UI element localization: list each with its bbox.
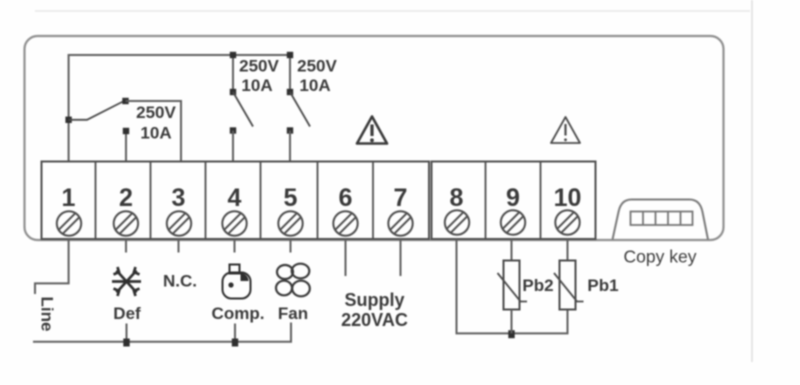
warning triangle W1 — [357, 117, 387, 144]
junction: Pb2 on sensor bus — [508, 330, 514, 338]
svg-text:Fan: Fan — [278, 304, 308, 323]
svg-text:3: 3 — [172, 184, 186, 212]
svg-text:220VAC: 220VAC — [341, 310, 408, 330]
wire: terminal 1 up and top supply bus — [69, 55, 290, 162]
svg-text:5: 5 — [284, 184, 298, 212]
relay K3 (Fan) supply stub — [289, 55, 291, 92]
wire: terminal 5 stub down — [290, 239, 292, 253]
warning triangle W2 — [551, 117, 580, 143]
relay K1 switch arm — [69, 102, 123, 120]
terminal 5 — [278, 184, 302, 236]
wire: terminal 4 stub down — [234, 239, 236, 253]
svg-text:10: 10 — [554, 184, 582, 212]
copy key connector — [613, 200, 709, 240]
node: K3 stub bottom — [287, 89, 293, 95]
wire: bottom bus from Line to Fan — [33, 323, 291, 342]
terminal 4 — [222, 184, 246, 236]
wire: terminal 2 stub down — [125, 239, 127, 253]
svg-text:9: 9 — [506, 184, 520, 212]
svg-text:250V: 250V — [297, 57, 337, 76]
terminal 1 — [57, 184, 81, 236]
wire: K2 contact to terminal 4 — [232, 131, 234, 163]
junction: Comp on bus — [232, 339, 238, 347]
terminal 9 — [501, 184, 525, 235]
wire: terminal 2 up stub — [125, 132, 127, 163]
svg-text:10A: 10A — [140, 124, 171, 143]
node: K2 stub top — [230, 52, 236, 58]
svg-text:Copy key: Copy key — [624, 247, 697, 267]
terminal 6 — [333, 184, 357, 236]
relay K1 closed contact node — [122, 98, 128, 104]
relay K2 contact node — [230, 127, 236, 133]
relay K3 contact node — [287, 127, 293, 133]
svg-text:10A: 10A — [241, 76, 272, 95]
value label 250V 10A (relay K3) — [297, 57, 337, 96]
fan icon — [276, 264, 310, 297]
wire: terminal 1 down to Line label — [35, 239, 69, 294]
svg-text:Comp.: Comp. — [212, 304, 265, 323]
terminal 7 — [388, 184, 412, 236]
probe Pb1 (thermistor) — [554, 261, 584, 310]
svg-text:N.C.: N.C. — [163, 272, 197, 291]
svg-text:10A: 10A — [299, 76, 330, 95]
relay K1 (Def) pivot junction — [65, 117, 71, 123]
wire: terminal 8 down and sensor bus — [457, 239, 568, 333]
faint page line right — [751, 0, 753, 362]
node: K2 stub bottom — [230, 89, 236, 95]
svg-text:Pb1: Pb1 — [587, 276, 618, 295]
wire: K3 contact to terminal 5 — [289, 131, 291, 163]
svg-text:Line: Line — [38, 297, 57, 332]
svg-text:Supply: Supply — [344, 290, 404, 310]
svg-text:2: 2 — [119, 184, 133, 212]
node: K3 stub top — [287, 52, 293, 58]
svg-text:250V: 250V — [239, 57, 279, 76]
relay K2 switch arm — [233, 92, 253, 127]
svg-text:8: 8 — [450, 184, 464, 212]
relay K1 open contact node — [123, 128, 129, 134]
terminal 2 — [114, 184, 138, 236]
terminal 8 — [445, 184, 469, 235]
svg-text:7: 7 — [394, 184, 408, 212]
defrost icon (snowflake) — [112, 267, 141, 296]
wire: Pb2 to sensor bus — [511, 310, 513, 334]
wire: Comp to bottom bus — [234, 324, 236, 342]
wire: terminal 9 to Pb2 — [511, 239, 513, 261]
relay K3 switch arm — [290, 92, 310, 127]
terminal 3 — [167, 184, 191, 236]
wire: contact to terminal 3 — [126, 101, 182, 162]
terminal 10 — [554, 184, 582, 235]
probe Pb2 (thermistor) — [498, 261, 528, 310]
value label 250V 10A (relay K2) — [239, 57, 279, 96]
wire: terminal 7 stub down — [400, 239, 402, 276]
terminal block A (terminals 1-7) — [42, 162, 430, 240]
controller body outline — [25, 36, 724, 240]
svg-text:1: 1 — [62, 184, 76, 212]
svg-text:6: 6 — [339, 184, 353, 212]
faint page line top — [35, 10, 750, 12]
svg-text:Def: Def — [113, 304, 141, 323]
svg-text:250V: 250V — [136, 103, 176, 122]
junction: Def on bus — [123, 339, 129, 347]
net label: Supply 220VAC — [341, 290, 408, 330]
wire: terminal 6 stub down — [345, 239, 347, 276]
wire: terminal 3 stub down — [178, 239, 180, 253]
value label 250V 10A (relay K1) — [136, 103, 176, 143]
compressor icon — [223, 265, 251, 299]
wire: terminal 10 to Pb1 — [567, 239, 569, 261]
wire: Def to bottom bus — [126, 324, 128, 342]
relay K2 (Comp) supply stub — [232, 55, 234, 92]
terminal block B (terminals 8-10) — [432, 162, 596, 240]
svg-text:4: 4 — [228, 184, 242, 212]
svg-text:Pb2: Pb2 — [522, 276, 553, 295]
